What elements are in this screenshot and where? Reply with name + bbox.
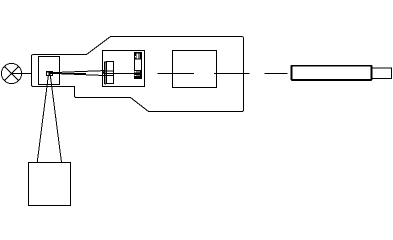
lamp house box bbox=[39, 57, 60, 85]
projection cone line left bbox=[37, 76, 48, 163]
source chip dot bbox=[51, 74, 52, 75]
condenser element L2 (wide) bbox=[106, 62, 113, 84]
condenser element L1 (thin) bbox=[104, 62, 106, 84]
optical axis dash 3 bbox=[265, 73, 288, 75]
optical axis dash 2 bbox=[214, 73, 250, 75]
wire axis condenser to reticle bbox=[105, 72, 135, 74]
eyepiece barrel bbox=[292, 66, 372, 80]
reticle bottom mask dots row 2 bbox=[135, 75, 140, 76]
reticle top mask bbox=[134, 52, 142, 60]
reticle bottom mask dots row 1 bbox=[135, 71, 140, 72]
focus arrowhead bbox=[102, 70, 105, 76]
reticle top mask dot bbox=[135, 56, 136, 57]
ray upper through condenser bbox=[104, 70, 113, 72]
lamp LS1 cross stroke A bbox=[4, 66, 18, 80]
instrument body outline bbox=[32, 37, 244, 112]
source chip Q1 bbox=[46, 71, 53, 76]
ray lower bbox=[53, 73, 104, 75]
reticle top mask slit 1 bbox=[137, 53, 138, 58]
wire lamp axis to housing bbox=[12, 73, 32, 75]
ray upper bbox=[53, 71, 104, 73]
lamp LS1 circle bbox=[1, 63, 21, 83]
eyepiece tip bbox=[372, 68, 392, 79]
lamp LS1 cross stroke B bbox=[4, 66, 18, 80]
optical axis dash 1 bbox=[158, 73, 195, 75]
reticle bottom mask bbox=[134, 70, 142, 79]
objective cell square bbox=[173, 51, 217, 88]
ray axis stub bbox=[53, 72, 86, 74]
ray lower through condenser bbox=[104, 75, 113, 77]
detector box bbox=[29, 163, 71, 206]
source chip window bbox=[47, 72, 48, 74]
optics compartment box bbox=[103, 51, 145, 87]
projection cone line right bbox=[50, 76, 61, 163]
reticle top mask slit 2 bbox=[138, 53, 141, 58]
reticle cell outline U1 bbox=[135, 53, 142, 79]
